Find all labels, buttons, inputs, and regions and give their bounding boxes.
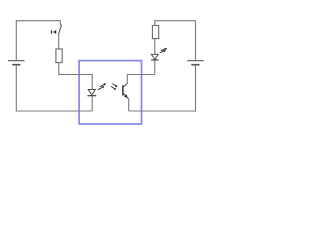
wire: left bottom rail xyxy=(16,109,92,112)
LED D2 emission arrow 1 xyxy=(160,50,166,53)
resistor R1 xyxy=(56,49,62,63)
wire: Q1 collector up and right to LED D2 branch xyxy=(127,75,155,84)
wire: LED D1 cathode down to bottom rail xyxy=(91,96,93,111)
phototransistor Q1 received-light arrow 1 xyxy=(112,84,117,88)
wire: left top rail xyxy=(16,21,60,22)
opto LED D1 emission arrow 2 xyxy=(100,83,106,87)
wire: battery B1 negative lead down xyxy=(15,65,17,111)
wire: collector branch up to LED D2 cathode xyxy=(154,60,156,75)
switch SW1 actuator xyxy=(51,30,56,34)
resistor R2 xyxy=(152,26,158,39)
wire: resistor R2 up to right top rail xyxy=(155,21,196,26)
opto LED D1 emission arrow 1 xyxy=(98,86,104,90)
switch SW1 lever xyxy=(58,25,61,35)
wire: right bottom rail xyxy=(129,109,196,112)
wire: LED D2 anode up to resistor R2 xyxy=(154,39,156,55)
wire: battery B2 negative lead down xyxy=(195,65,197,111)
phototransistor Q1 xyxy=(123,83,129,99)
wire: battery B2 positive lead xyxy=(195,21,197,61)
battery B2 xyxy=(187,61,204,65)
indicator LED D2 xyxy=(151,54,158,60)
wire: battery B1 positive lead xyxy=(15,21,17,61)
LED D2 emission arrow 2 xyxy=(161,48,167,51)
opto LED D1 xyxy=(87,89,96,95)
switch SW1 top terminal stub xyxy=(59,21,61,26)
wire: switch SW1 to resistor R1 xyxy=(58,35,60,49)
wire: resistor R1 to jog corner xyxy=(58,63,60,75)
battery B1 xyxy=(8,61,25,65)
phototransistor Q1 received-light arrow 2 xyxy=(111,86,116,90)
wire: Q1 emitter down to bottom rail xyxy=(128,99,130,111)
optocoupler package U1 (blue outline box) xyxy=(79,61,141,124)
wire: horizontal jog into package to LED D1 xyxy=(58,75,92,90)
